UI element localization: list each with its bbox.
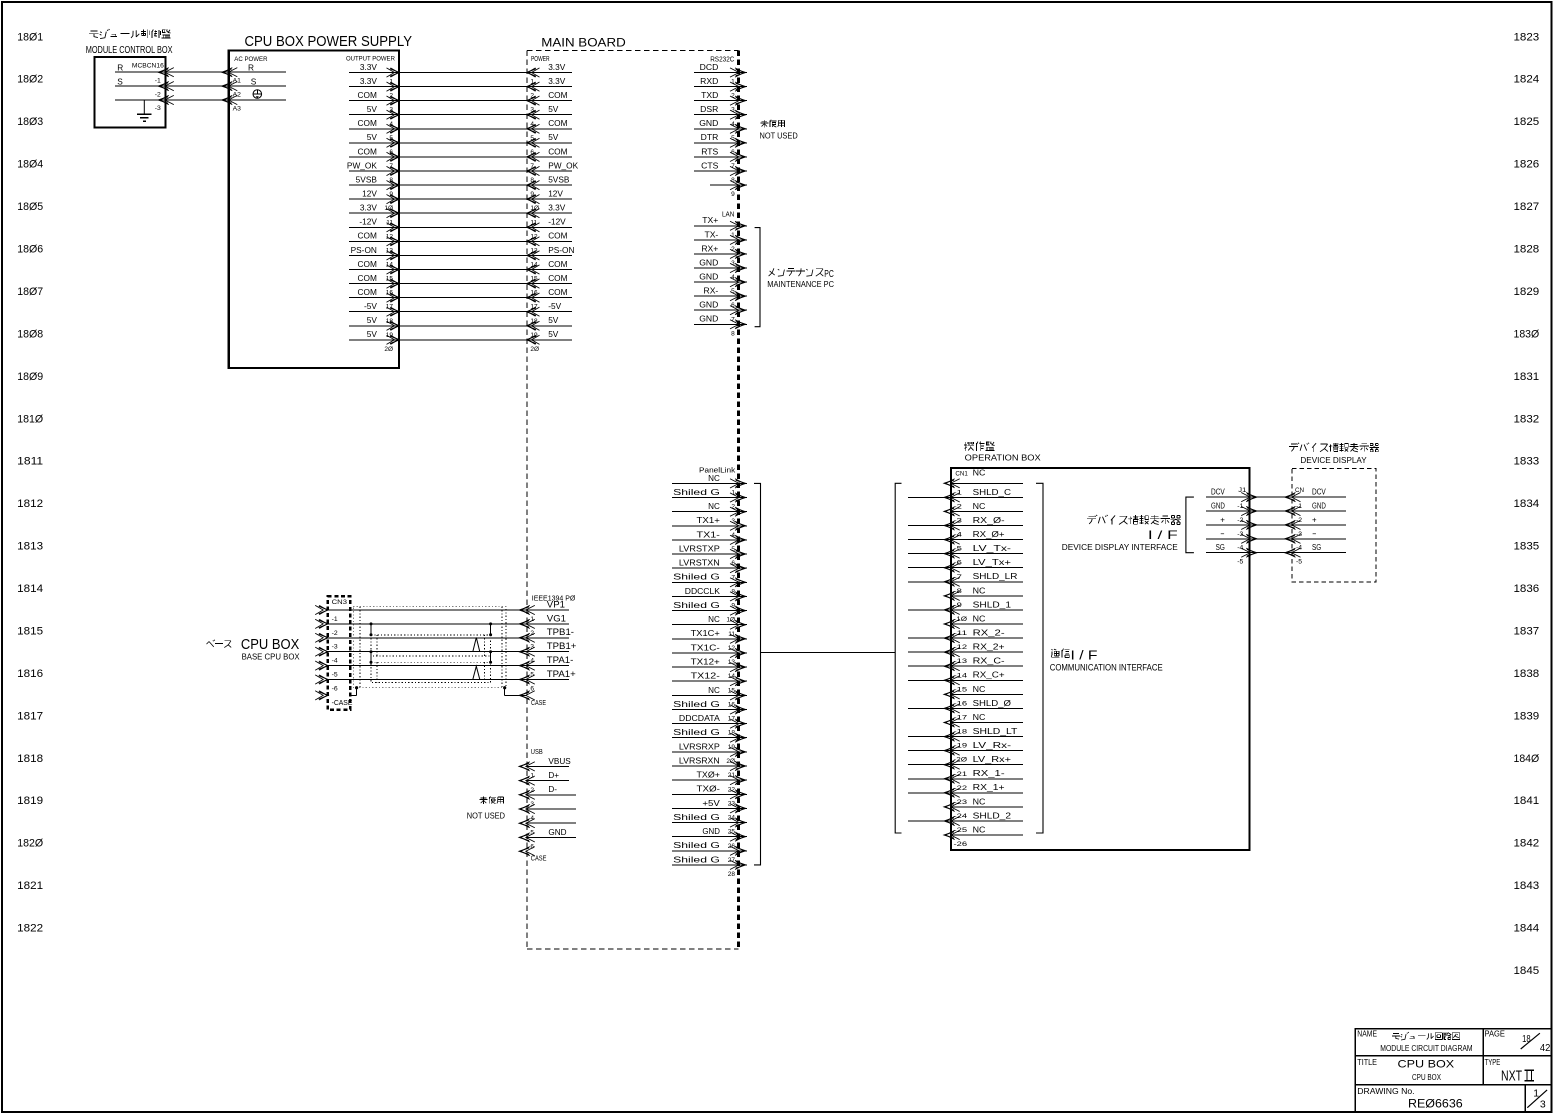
svg-text:COM: COM xyxy=(358,259,377,269)
svg-text:18Ø2: 18Ø2 xyxy=(17,74,43,86)
svg-text:GND: GND xyxy=(1211,501,1225,510)
svg-text:RTS: RTS xyxy=(701,146,718,156)
svg-text:MAINTENANCE PC: MAINTENANCE PC xyxy=(767,280,834,289)
svg-text:I / F: I / F xyxy=(1148,528,1178,542)
svg-text:1826: 1826 xyxy=(1514,159,1540,171)
svg-text:CN1: CN1 xyxy=(955,471,968,478)
svg-text:SHLD_2: SHLD_2 xyxy=(973,811,1011,820)
svg-text:184Ø: 184Ø xyxy=(1514,753,1540,765)
svg-text:1839: 1839 xyxy=(1514,710,1540,722)
svg-text:TX+: TX+ xyxy=(702,215,718,225)
svg-text:-6: -6 xyxy=(332,685,338,692)
svg-text:NXT: NXT xyxy=(1501,1069,1522,1085)
svg-text:LVRSTXP: LVRSTXP xyxy=(679,544,720,553)
svg-text:5V: 5V xyxy=(367,104,378,114)
svg-text:181Ø: 181Ø xyxy=(17,413,43,425)
svg-text:3.3V: 3.3V xyxy=(360,62,378,72)
svg-text:-4: -4 xyxy=(1296,545,1302,552)
svg-text:MCBCN16: MCBCN16 xyxy=(132,62,164,69)
svg-text:DDCDATA: DDCDATA xyxy=(679,714,721,723)
svg-text:-3: -3 xyxy=(1237,531,1243,538)
svg-text:CASE: CASE xyxy=(531,856,547,863)
svg-text:RX_Ø+: RX_Ø+ xyxy=(973,530,1006,539)
svg-text:1829: 1829 xyxy=(1514,286,1540,298)
svg-text:CN3: CN3 xyxy=(332,599,348,606)
svg-text:COM: COM xyxy=(548,146,567,156)
svg-text:5V: 5V xyxy=(548,132,559,142)
svg-text:D-: D- xyxy=(548,785,557,794)
svg-text:-3: -3 xyxy=(332,644,338,651)
svg-text:TXD: TXD xyxy=(701,90,718,100)
svg-text:-2: -2 xyxy=(1237,517,1243,524)
svg-text:1845: 1845 xyxy=(1514,965,1540,977)
svg-text:CPU BOX: CPU BOX xyxy=(1398,1059,1455,1071)
svg-text:Shiled G: Shiled G xyxy=(673,728,720,737)
svg-text:COM: COM xyxy=(548,231,567,241)
svg-text:NOT USED: NOT USED xyxy=(467,812,505,821)
svg-text:-1: -1 xyxy=(155,77,161,84)
svg-text:-5: -5 xyxy=(332,672,338,679)
svg-text:CTS: CTS xyxy=(701,160,718,170)
svg-text:-12V: -12V xyxy=(548,217,566,227)
svg-text:1835: 1835 xyxy=(1514,541,1540,553)
svg-text:+: + xyxy=(1312,515,1317,524)
svg-text:TPB1+: TPB1+ xyxy=(547,641,577,652)
svg-text:5V: 5V xyxy=(548,329,559,339)
svg-text:SG: SG xyxy=(1216,543,1225,552)
svg-text:RX_C-: RX_C- xyxy=(973,657,1006,666)
svg-text:SHLD_LR: SHLD_LR xyxy=(973,572,1018,581)
svg-text:COM: COM xyxy=(548,259,567,269)
svg-text:-2Ø: -2Ø xyxy=(954,757,968,764)
svg-text:RX_C+: RX_C+ xyxy=(973,671,1006,680)
svg-text:NC: NC xyxy=(708,686,720,695)
svg-text:-: - xyxy=(1220,529,1225,538)
svg-text:RX+: RX+ xyxy=(701,243,718,253)
svg-text:COM: COM xyxy=(548,118,567,128)
svg-text:COM: COM xyxy=(548,90,567,100)
svg-text:COM: COM xyxy=(358,287,377,297)
svg-text:COM: COM xyxy=(358,118,377,128)
svg-text:1812: 1812 xyxy=(17,498,43,510)
svg-text:-5: -5 xyxy=(1296,559,1302,566)
svg-text:NC: NC xyxy=(973,797,986,806)
svg-text:PS-ON: PS-ON xyxy=(351,245,377,255)
svg-text:NAME: NAME xyxy=(1357,1029,1377,1039)
svg-text:DTR: DTR xyxy=(701,132,719,142)
svg-text:GND: GND xyxy=(1312,501,1326,510)
svg-text:9: 9 xyxy=(731,191,735,198)
svg-text:NC: NC xyxy=(708,474,720,483)
svg-text:A3: A3 xyxy=(233,105,242,112)
svg-text:LVRSRXP: LVRSRXP xyxy=(679,742,720,751)
svg-text:1814: 1814 xyxy=(17,583,43,595)
svg-text:18Ø6: 18Ø6 xyxy=(17,244,43,256)
svg-text:1819: 1819 xyxy=(17,795,43,807)
svg-text:42: 42 xyxy=(1540,1042,1551,1054)
svg-text:MODULE CIRCUIT DIAGRAM: MODULE CIRCUIT DIAGRAM xyxy=(1380,1044,1473,1053)
svg-text:18: 18 xyxy=(1522,1033,1531,1045)
svg-text:1841: 1841 xyxy=(1514,795,1540,807)
svg-text:REØ6636: REØ6636 xyxy=(1408,1097,1463,1111)
svg-text:NC: NC xyxy=(973,713,986,722)
svg-text:-2: -2 xyxy=(1296,517,1302,524)
svg-text:GND: GND xyxy=(702,827,720,836)
svg-text:GND: GND xyxy=(548,828,566,837)
svg-text:DCV: DCV xyxy=(1211,488,1225,497)
svg-text:2Ø: 2Ø xyxy=(530,346,539,353)
svg-text:GND: GND xyxy=(699,300,718,310)
svg-text:5V: 5V xyxy=(367,315,378,325)
svg-text:GND: GND xyxy=(699,257,718,267)
svg-text:CPU BOX: CPU BOX xyxy=(241,637,300,653)
svg-text:TX1-: TX1- xyxy=(697,530,721,539)
svg-text:5V: 5V xyxy=(367,329,378,339)
svg-text:RX_1+: RX_1+ xyxy=(973,783,1006,792)
svg-text:18Ø4: 18Ø4 xyxy=(17,159,43,171)
svg-text:1816: 1816 xyxy=(17,668,43,680)
svg-text:Shiled G: Shiled G xyxy=(673,813,720,822)
svg-text:TITLE: TITLE xyxy=(1357,1057,1377,1067)
svg-text:VG1: VG1 xyxy=(547,613,566,624)
svg-text:COM: COM xyxy=(358,273,377,283)
svg-text:TXØ-: TXØ- xyxy=(697,785,721,794)
svg-text:-26: -26 xyxy=(954,841,968,848)
svg-text:LV_Tx+: LV_Tx+ xyxy=(973,558,1012,567)
svg-text:18Ø1: 18Ø1 xyxy=(17,31,43,43)
svg-text:-: - xyxy=(1312,529,1317,538)
svg-text:POWER: POWER xyxy=(531,56,550,63)
svg-text:PW_OK: PW_OK xyxy=(347,160,377,170)
svg-text:DDCCLK: DDCCLK xyxy=(685,587,721,596)
svg-text:182Ø: 182Ø xyxy=(17,838,43,850)
svg-text:TPA1+: TPA1+ xyxy=(547,669,576,680)
svg-text:NC: NC xyxy=(973,502,986,511)
svg-text:1828: 1828 xyxy=(1514,244,1540,256)
svg-text:12V: 12V xyxy=(548,189,563,199)
svg-text:TPA1-: TPA1- xyxy=(547,655,573,666)
svg-text:RX_2-: RX_2- xyxy=(973,629,1006,638)
svg-text:TYPE: TYPE xyxy=(1485,1057,1501,1067)
svg-text:-4: -4 xyxy=(1237,545,1243,552)
svg-text:USB: USB xyxy=(531,749,543,756)
svg-text:-5: -5 xyxy=(1237,559,1243,566)
svg-text:I / F: I / F xyxy=(1071,647,1098,662)
svg-text:Shiled G: Shiled G xyxy=(673,488,720,497)
svg-text:TX12+: TX12+ xyxy=(691,658,721,667)
svg-text:LAN: LAN xyxy=(722,211,734,218)
svg-text:-12V: -12V xyxy=(359,217,377,227)
svg-text:R: R xyxy=(117,62,123,72)
svg-text:PW_OK: PW_OK xyxy=(548,160,578,170)
svg-text:-1: -1 xyxy=(332,616,338,623)
svg-text:COM: COM xyxy=(358,146,377,156)
svg-text:CPU BOX: CPU BOX xyxy=(1412,1073,1442,1082)
svg-text:1811: 1811 xyxy=(17,456,43,468)
svg-text:NC: NC xyxy=(973,685,986,694)
svg-text:5V: 5V xyxy=(548,104,559,114)
svg-text:TX1+: TX1+ xyxy=(697,516,721,525)
svg-text:NC: NC xyxy=(973,614,986,623)
svg-text:-2: -2 xyxy=(155,91,161,98)
svg-text:RX_Ø-: RX_Ø- xyxy=(973,516,1006,525)
svg-text:NC: NC xyxy=(708,615,720,624)
svg-text:3.3V: 3.3V xyxy=(548,203,566,213)
svg-text:Shiled G: Shiled G xyxy=(673,573,720,582)
svg-text:1837: 1837 xyxy=(1514,626,1540,638)
svg-text:+5V: +5V xyxy=(702,799,720,808)
svg-text:MAIN BOARD: MAIN BOARD xyxy=(541,36,625,49)
svg-text:28: 28 xyxy=(728,871,736,878)
svg-text:CPU BOX POWER SUPPLY: CPU BOX POWER SUPPLY xyxy=(245,34,413,50)
svg-text:TX1C-: TX1C- xyxy=(691,643,721,652)
svg-text:1831: 1831 xyxy=(1514,371,1540,383)
svg-text:SHLD_C: SHLD_C xyxy=(973,488,1012,497)
svg-text:TX-: TX- xyxy=(704,229,718,239)
svg-text:SHLD_Ø: SHLD_Ø xyxy=(973,699,1011,708)
svg-text:1818: 1818 xyxy=(17,753,43,765)
svg-text:LV_Rx+: LV_Rx+ xyxy=(973,755,1012,764)
svg-text:12V: 12V xyxy=(362,189,377,199)
svg-text:LVRSRXN: LVRSRXN xyxy=(679,756,720,765)
svg-text:DSR: DSR xyxy=(700,104,718,114)
svg-text:-3: -3 xyxy=(1296,531,1302,538)
svg-text:1823: 1823 xyxy=(1514,31,1540,43)
svg-text:NOT USED: NOT USED xyxy=(760,131,798,140)
svg-text:COM: COM xyxy=(358,231,377,241)
svg-text:DCV: DCV xyxy=(1312,488,1326,497)
svg-text:-25: -25 xyxy=(954,827,968,834)
svg-text:COM: COM xyxy=(358,90,377,100)
svg-text:RX_1-: RX_1- xyxy=(973,769,1006,778)
svg-text:183Ø: 183Ø xyxy=(1514,328,1540,340)
svg-text:18Ø9: 18Ø9 xyxy=(17,371,43,383)
svg-text:-1Ø: -1Ø xyxy=(954,616,968,623)
svg-text:GND: GND xyxy=(699,314,718,324)
svg-text:COM: COM xyxy=(548,287,567,297)
svg-text:8: 8 xyxy=(731,330,735,337)
svg-text:1821: 1821 xyxy=(17,880,43,892)
svg-text:1827: 1827 xyxy=(1514,201,1540,213)
svg-text:RX-: RX- xyxy=(703,286,718,296)
svg-text:-2: -2 xyxy=(332,630,338,637)
svg-text:-1: -1 xyxy=(1296,503,1302,510)
svg-text:5VSB: 5VSB xyxy=(356,175,378,185)
svg-text:5V: 5V xyxy=(367,132,378,142)
svg-text:D+: D+ xyxy=(548,771,559,780)
svg-text:3.3V: 3.3V xyxy=(548,76,566,86)
svg-text:BASE CPU BOX: BASE CPU BOX xyxy=(242,652,301,661)
svg-text:Shiled G: Shiled G xyxy=(673,700,720,709)
svg-text:+: + xyxy=(1220,515,1225,524)
svg-text:3.3V: 3.3V xyxy=(360,203,378,213)
svg-text:-1: -1 xyxy=(1237,503,1243,510)
svg-text:NC: NC xyxy=(973,825,986,834)
svg-text:SHLD_1: SHLD_1 xyxy=(973,600,1011,609)
svg-text:TX12-: TX12- xyxy=(691,672,721,681)
svg-text:-5V: -5V xyxy=(548,301,561,311)
svg-text:18Ø3: 18Ø3 xyxy=(17,116,43,128)
svg-text:TX1C+: TX1C+ xyxy=(691,629,721,638)
svg-text:MODULE CONTROL BOX: MODULE CONTROL BOX xyxy=(86,45,173,56)
svg-text:CASE: CASE xyxy=(531,700,546,707)
svg-text:SHLD_LT: SHLD_LT xyxy=(973,727,1018,736)
svg-text:18Ø8: 18Ø8 xyxy=(17,328,43,340)
svg-text:1844: 1844 xyxy=(1514,923,1540,935)
svg-text:1815: 1815 xyxy=(17,626,43,638)
svg-text:TPB1-: TPB1- xyxy=(547,627,574,638)
svg-text:VBUS: VBUS xyxy=(548,757,571,766)
svg-text:5VSB: 5VSB xyxy=(548,175,570,185)
svg-text:S: S xyxy=(251,76,257,86)
svg-text:-5V: -5V xyxy=(364,301,377,311)
svg-text:NC: NC xyxy=(973,469,986,478)
svg-text:RXD: RXD xyxy=(700,76,718,86)
svg-text:Shiled G: Shiled G xyxy=(673,855,720,864)
svg-text:LV_Rx-: LV_Rx- xyxy=(973,741,1012,750)
svg-text:NC: NC xyxy=(708,502,720,511)
svg-text:1838: 1838 xyxy=(1514,668,1540,680)
svg-text:R: R xyxy=(248,62,254,72)
svg-text:TXØ+: TXØ+ xyxy=(697,771,721,780)
svg-text:S: S xyxy=(117,76,123,86)
svg-text:COM: COM xyxy=(548,273,567,283)
svg-text:5V: 5V xyxy=(548,315,559,325)
svg-text:GND: GND xyxy=(699,118,718,128)
svg-text:OPERATION BOX: OPERATION BOX xyxy=(965,452,1042,462)
svg-text:3.3V: 3.3V xyxy=(360,76,378,86)
svg-text:1842: 1842 xyxy=(1514,838,1540,850)
svg-text:LVRSTXN: LVRSTXN xyxy=(679,559,720,568)
svg-text:SG: SG xyxy=(1312,543,1321,552)
svg-text:1825: 1825 xyxy=(1514,116,1540,128)
svg-text:1824: 1824 xyxy=(1514,74,1540,86)
svg-text:1836: 1836 xyxy=(1514,583,1540,595)
svg-text:PS-ON: PS-ON xyxy=(548,245,574,255)
svg-text:A2: A2 xyxy=(233,92,242,99)
svg-text:Shiled G: Shiled G xyxy=(673,841,720,850)
svg-text:3: 3 xyxy=(1540,1099,1546,1111)
svg-text:LV_Tx-: LV_Tx- xyxy=(973,544,1012,553)
svg-text:GND: GND xyxy=(699,272,718,282)
svg-text:PAGE: PAGE xyxy=(1485,1029,1506,1039)
svg-text:1843: 1843 xyxy=(1514,880,1540,892)
svg-text:COMMUNICATION INTERFACE: COMMUNICATION INTERFACE xyxy=(1050,662,1163,672)
svg-text:A1: A1 xyxy=(233,78,242,85)
svg-text:18Ø7: 18Ø7 xyxy=(17,286,43,298)
svg-text:DEVICE DISPLAY INTERFACE: DEVICE DISPLAY INTERFACE xyxy=(1062,542,1178,552)
svg-text:3.3V: 3.3V xyxy=(548,62,566,72)
svg-text:-3: -3 xyxy=(155,105,161,112)
svg-text:2Ø: 2Ø xyxy=(384,346,393,353)
svg-text:18Ø5: 18Ø5 xyxy=(17,201,43,213)
svg-text:1813: 1813 xyxy=(17,541,43,553)
svg-text:DEVICE DISPLAY: DEVICE DISPLAY xyxy=(1300,456,1367,465)
svg-text:1817: 1817 xyxy=(17,710,43,722)
svg-text:1834: 1834 xyxy=(1514,498,1540,510)
svg-text:Shiled G: Shiled G xyxy=(673,601,720,610)
svg-text:VP1: VP1 xyxy=(547,599,565,610)
svg-text:DCD: DCD xyxy=(700,62,719,72)
svg-text:1822: 1822 xyxy=(17,923,43,935)
svg-text:1833: 1833 xyxy=(1514,456,1540,468)
svg-text:NC: NC xyxy=(973,586,986,595)
svg-text:DRAWING No.: DRAWING No. xyxy=(1357,1087,1414,1096)
svg-text:1832: 1832 xyxy=(1514,413,1540,425)
svg-text:PC: PC xyxy=(824,269,834,280)
svg-text:-4: -4 xyxy=(332,658,338,665)
svg-text:RX_2+: RX_2+ xyxy=(973,643,1006,652)
